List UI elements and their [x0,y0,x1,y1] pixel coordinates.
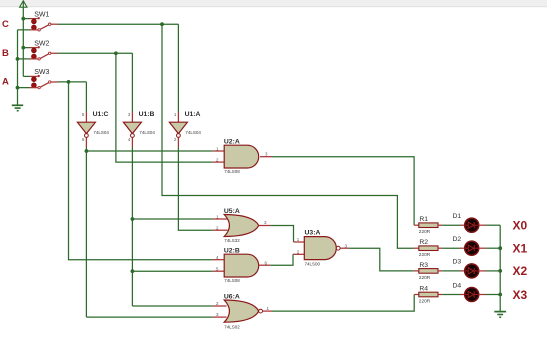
OR gate U5:A 74LS32 [216,208,267,243]
svg-text:D4: D4 [453,282,462,289]
wire U5:A out to U3:A.1 [271,226,294,243]
ground (left) [12,105,23,110]
AND gate U2:B 74LS08 [216,248,268,283]
svg-text:C: C [2,19,9,30]
AND gate U2:A 74LS08 [216,139,268,175]
stub R1 right [438,224,442,226]
junction NOT-B to U5:A.1 [131,217,135,221]
svg-text:SW2: SW2 [34,40,49,47]
svg-text:U5:A: U5:A [224,208,240,215]
svg-text:R1: R1 [419,216,428,223]
svg-text:SW3: SW3 [34,69,49,76]
wire GND vertical rail [17,30,19,105]
wire C-direct to R2 [162,24,414,248]
svg-text:SW1: SW1 [34,11,49,18]
window top edge band [0,0,547,6]
LED D1 [453,213,487,232]
junction bus-X1 [498,246,502,250]
junction GND-SW2 [16,57,20,61]
wire A-direct to U2:B.4 [69,82,213,260]
stub U3:A out [340,247,349,249]
svg-text:U6:A: U6:A [224,293,240,300]
svg-text:220R: 220R [419,298,431,304]
svg-text:B: B [2,48,9,59]
inverter U1:B 74LS04 [123,111,155,147]
LED D2 [453,236,487,255]
svg-text:R2: R2 [419,239,428,246]
inverter U1:C 74LS04 [77,111,109,147]
svg-text:U3:A: U3:A [305,230,321,237]
svg-text:74LS04: 74LS04 [139,130,155,135]
NOR gate U6:A 74LS02 [216,293,270,329]
svg-text:220R: 220R [419,275,431,281]
svg-text:R4: R4 [419,286,428,293]
svg-text:U1:B: U1:B [139,111,155,118]
resistor R4 220R [419,286,438,305]
wire input to U1:B [131,53,133,112]
resistor R1 220R [419,216,438,235]
wire R3 to D3 [442,270,460,272]
junction B branch [114,51,118,55]
stub U5:A out [259,225,271,227]
wire input to U1:C [85,82,87,112]
wire U3:A out to R3 [349,248,413,271]
junction NOT-B to U2:B.5 [131,269,135,273]
wire D4 to bus [486,294,500,296]
svg-text:D1: D1 [453,213,462,220]
svg-text:220R: 220R [419,229,431,235]
wire R2 to D2 [442,247,460,249]
wire NOT-B vertical [131,147,133,306]
junction C branch [160,22,164,26]
svg-text:X2: X2 [513,264,528,278]
wire A row [58,81,87,83]
svg-text:U1:A: U1:A [185,111,201,118]
junction GND-SW3 [16,86,20,90]
wire output bus vertical [499,225,501,311]
wire to U2:A.1 [86,150,212,152]
switch SW1 [18,11,58,31]
wire U2:B out to U3:A.2 [271,254,293,265]
wire to U6:A.2 [132,305,212,307]
inverter U1:A 74LS04 [169,111,201,147]
wire NOT-A vertical [85,147,87,317]
svg-text:74LS02: 74LS02 [224,324,240,329]
wire to U6:A.3 [86,316,212,318]
wire R4 to D4 [442,294,460,296]
junction bus-X3 [498,293,502,297]
svg-text:220R: 220R [419,252,431,258]
svg-text:74LS08: 74LS08 [224,169,240,174]
wire D3 to bus [486,270,500,272]
wire input to U1:A [177,24,179,112]
junction bus-X2 [498,269,502,273]
svg-text:U2:B: U2:B [224,248,240,255]
wire B-direct to U2:A.2 [116,53,213,162]
svg-text:X0: X0 [513,219,528,233]
stub U2:A out [260,156,272,158]
junction A branch [67,80,71,84]
stub R3 right [438,270,442,272]
wire R1 to D1 [442,224,460,226]
resistor R2 220R [419,239,438,258]
svg-text:74LS08: 74LS08 [224,278,240,283]
wire NOT-C to U5:A.2 [178,147,212,230]
wire U2:A out to R1 [272,157,414,226]
LED D3 [453,259,487,278]
junction VCC-SW1 [21,17,25,21]
wire U6:A out to R4 [272,295,414,312]
wire D1 to bus [486,224,500,226]
switch SW2 [18,40,58,60]
svg-text:U2:A: U2:A [224,139,240,146]
ground (right) [494,312,506,318]
switch SW3 [18,69,58,89]
stub U6:A out [263,310,272,312]
wire VCC vertical rail [22,7,24,76]
svg-text:U1:C: U1:C [93,111,109,118]
NAND gate U3:A 74LS00 [304,230,347,267]
svg-text:X3: X3 [513,288,528,302]
resistor R3 220R [419,262,438,281]
stub R2 right [438,247,442,249]
svg-text:74LS04: 74LS04 [185,130,201,135]
svg-text:D3: D3 [453,259,462,266]
svg-text:74LS04: 74LS04 [93,130,109,135]
junction VCC-SW2 [21,46,25,50]
wire D2 to bus [486,247,500,249]
wire to U5:A.1 [132,218,212,220]
wire B row [58,52,133,54]
power symbol VCC arrow [20,1,27,7]
junction NOT-A to U2:A.1 [85,149,89,153]
wire to U2:B.5 [132,270,212,272]
svg-text:R3: R3 [419,262,428,269]
svg-text:A: A [2,77,9,88]
svg-text:74LS32: 74LS32 [224,238,240,243]
LED D4 [453,282,487,301]
svg-text:X1: X1 [513,242,528,256]
svg-text:74LS00: 74LS00 [305,261,321,266]
stub R4 right [438,294,442,296]
wire C row [58,23,179,25]
svg-text:D2: D2 [453,236,462,243]
stub U2:B out [259,264,271,266]
